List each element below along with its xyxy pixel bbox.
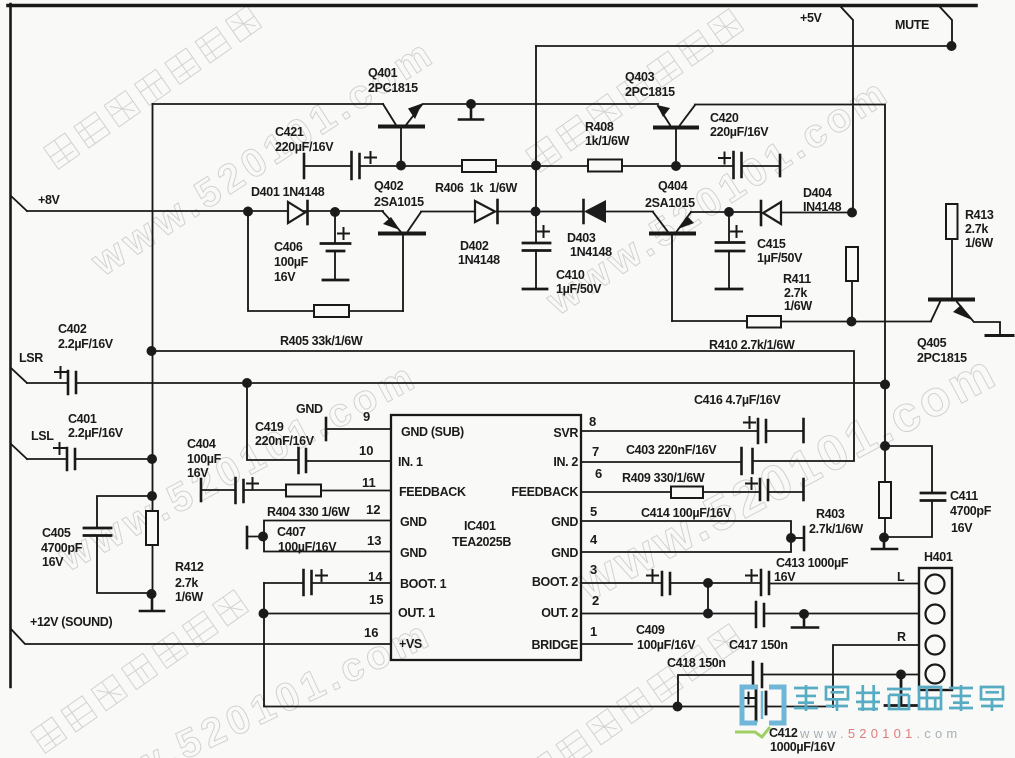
junction dot Q403 base: [671, 161, 681, 171]
svg-text:BRIDGE: BRIDGE: [531, 638, 578, 652]
capacitor C415: [728, 212, 730, 241]
junction dot +5V/D404 node: [847, 208, 857, 218]
svg-text:14: 14: [368, 569, 383, 584]
svg-text:C409: C409: [636, 623, 665, 637]
wire rail Q404 to D404: [691, 211, 761, 213]
svg-text:D403: D403: [567, 231, 596, 245]
wire +8V entry: [11, 196, 27, 211]
capacitor C411 loop: [884, 446, 932, 537]
svg-text:C419: C419: [255, 420, 284, 434]
wire pin15: [264, 613, 391, 615]
svg-text:1N4148: 1N4148: [458, 253, 500, 267]
wire pin5 pin4 loop and capacitor C414: [581, 521, 791, 552]
svg-text:16V: 16V: [42, 555, 64, 569]
junction dot LSL node: [147, 454, 157, 464]
svg-text:Q405: Q405: [917, 336, 947, 350]
junction dot C418 drop: [673, 702, 683, 712]
transistor Q403: [655, 126, 697, 130]
svg-text:GND: GND: [400, 546, 427, 560]
svg-text:8: 8: [589, 414, 596, 429]
svg-text:+8V: +8V: [38, 193, 61, 207]
transistor Q401: [380, 125, 423, 129]
svg-text:16V: 16V: [274, 270, 296, 284]
junction dot C415 node: [724, 207, 734, 217]
svg-text:D404: D404: [803, 186, 832, 200]
wire LSL-to-IN2 line y351: [151, 351, 854, 461]
capacitor C402: [27, 382, 68, 384]
wire LSR entry: [11, 368, 27, 383]
wire bottom return y706: [264, 706, 756, 708]
junction dot y383 at x885: [880, 380, 890, 390]
junction dot OUT1: [259, 609, 269, 619]
svg-text:R410 2.7k/1/6W: R410 2.7k/1/6W: [709, 338, 795, 352]
svg-text:13: 13: [367, 533, 381, 548]
svg-text:FEEDBACK: FEEDBACK: [511, 485, 578, 499]
svg-text:C416 4.7µF/16V: C416 4.7µF/16V: [694, 393, 781, 407]
junction dot C405 top: [147, 491, 157, 501]
svg-text:2PC1815: 2PC1815: [917, 351, 967, 365]
junction dot C406 node: [330, 207, 340, 217]
svg-text:1N4148: 1N4148: [570, 245, 612, 259]
svg-text:C401: C401: [68, 412, 97, 426]
wire upper rail y104 left segment: [153, 103, 384, 105]
svg-text:IC401: IC401: [464, 519, 496, 533]
site logo blue brackets: [742, 687, 784, 723]
capacitor C404: [200, 479, 203, 501]
wire pin2 capacitor C417: [581, 613, 756, 615]
wire pin8 and capacitor C416: [581, 430, 758, 432]
svg-text:2.2µF/16V: 2.2µF/16V: [68, 426, 124, 440]
svg-text:Q401: Q401: [368, 66, 398, 80]
ground speaker return: [885, 674, 918, 706]
svg-text:Q404: Q404: [658, 179, 688, 193]
junction dot speaker return: [896, 670, 906, 680]
svg-text:OUT. 2: OUT. 2: [541, 606, 578, 620]
svg-text:D402: D402: [460, 239, 489, 253]
svg-text:1/6W: 1/6W: [784, 299, 812, 313]
capacitor C408 bootstrap1: [264, 582, 303, 584]
wire +8V rail left of Q402: [27, 210, 383, 212]
diode D402: [475, 201, 495, 222]
capacitor on pin6 line: [760, 479, 768, 500]
site logo green wave: [735, 727, 770, 737]
extra faint band bottom right: [526, 624, 744, 758]
svg-text:7: 7: [592, 444, 599, 459]
capacitor C412: [756, 686, 766, 721]
svg-text:TEA2025B: TEA2025B: [452, 535, 511, 549]
junction dot upper rail x471: [466, 99, 476, 109]
svg-text:R403: R403: [816, 507, 845, 521]
svg-text:C403 220nF/16V: C403 220nF/16V: [626, 443, 717, 457]
border frame left line: [9, 4, 12, 687]
diode D403: [582, 200, 585, 223]
wire C419 branch vertical: [247, 383, 298, 460]
wire mute horizontal rail y46: [536, 45, 951, 47]
svg-text:GND: GND: [551, 515, 578, 529]
svg-text:IN. 1: IN. 1: [398, 455, 423, 469]
wire OUT1 bus vertical x264: [263, 583, 265, 706]
svg-text:H401: H401: [924, 550, 953, 564]
svg-text:4700pF: 4700pF: [41, 541, 83, 555]
junction dot mute rail: [947, 41, 957, 51]
ground symbol at upper rail x471: [459, 104, 483, 120]
wire upper rail y104 mid segment: [423, 103, 658, 105]
ground R403: [872, 537, 897, 549]
svg-text:+VS: +VS: [399, 637, 422, 651]
svg-text:1/6W: 1/6W: [175, 590, 203, 604]
LOGO: [735, 685, 1003, 741]
svg-text:R406 1k 1/6W: R406 1k 1/6W: [435, 181, 518, 195]
svg-text:1µF/50V: 1µF/50V: [556, 282, 602, 296]
ground Q405: [986, 334, 1013, 337]
svg-text:2: 2: [592, 593, 599, 608]
capacitor C406: [334, 212, 336, 242]
capacitor C418: [678, 675, 753, 706]
svg-text:+5V: +5V: [800, 11, 823, 25]
svg-text:2PC1815: 2PC1815: [368, 81, 418, 95]
svg-text:FEEDBACK: FEEDBACK: [399, 485, 466, 499]
svg-text:C421: C421: [275, 125, 304, 139]
svg-text:11: 11: [362, 475, 376, 490]
junction dot C410 node: [531, 207, 541, 217]
svg-text:C412: C412: [769, 726, 798, 740]
svg-text:MUTE: MUTE: [895, 18, 929, 32]
svg-text:2PC1815: 2PC1815: [625, 85, 675, 99]
transistor Q405: [930, 298, 973, 302]
resistor R405 and loop: [248, 212, 314, 311]
svg-text:LSL: LSL: [31, 429, 54, 443]
wire +8V rail Q402 to D402: [421, 211, 474, 213]
svg-text:LSR: LSR: [19, 351, 43, 365]
svg-text:12: 12: [366, 502, 380, 517]
wire LSL entry: [11, 444, 27, 459]
junction dot x536 y165: [531, 161, 541, 171]
wire OUT2 drop: [707, 583, 709, 613]
svg-text:6: 6: [595, 466, 602, 481]
svg-text:10: 10: [359, 443, 373, 458]
svg-text:L: L: [897, 570, 905, 584]
svg-text:OUT. 1: OUT. 1: [398, 606, 435, 620]
resistor R411: [846, 247, 858, 281]
svg-text:2.7k: 2.7k: [965, 222, 988, 236]
ground R412: [140, 594, 164, 611]
ground pin9 terminal: [325, 418, 328, 440]
wire R channel riser: [833, 645, 919, 707]
capacitor C420: [734, 152, 742, 178]
capacitor C419: [299, 448, 307, 473]
junction dot R412 bottom: [147, 589, 157, 599]
svg-text:GND: GND: [551, 546, 578, 560]
wire pin7 and capacitor C403: [581, 461, 740, 463]
svg-text:C406: C406: [274, 240, 303, 254]
wire pin3 capacitors C409 C413: [581, 582, 662, 584]
svg-text:1k/1/6W: 1k/1/6W: [585, 134, 630, 148]
svg-text:R408: R408: [585, 120, 614, 134]
junction dot C421/Q401 base: [396, 161, 406, 171]
junction dot node y351: [147, 346, 157, 356]
capacitor C421: [303, 154, 306, 178]
svg-text:C417 150n: C417 150n: [729, 638, 788, 652]
resistor R413: [946, 204, 958, 239]
svg-text:R411: R411: [783, 272, 811, 286]
svg-text:9: 9: [363, 409, 370, 424]
ground pin2 line: [792, 614, 818, 628]
resistor R412: [146, 511, 158, 545]
svg-text:C407: C407: [277, 525, 306, 539]
wire +5V drop from top border: [841, 7, 853, 212]
junction dot C407: [258, 532, 268, 542]
wire vertical x152 input bus: [152, 104, 154, 594]
svg-text:C402: C402: [58, 322, 87, 336]
svg-text:4: 4: [590, 532, 598, 547]
svg-text:R404 330 1/6W: R404 330 1/6W: [267, 505, 350, 519]
svg-text:100µF: 100µF: [274, 255, 309, 269]
svg-text:C404: C404: [187, 437, 216, 451]
junction dot C419 branch: [242, 378, 252, 388]
svg-text:BOOT. 2: BOOT. 2: [532, 575, 579, 589]
svg-text:16V: 16V: [774, 570, 796, 584]
svg-text:C413 1000µF: C413 1000µF: [776, 556, 849, 570]
connector H401: [919, 568, 952, 690]
svg-text:R409 330/1/6W: R409 330/1/6W: [622, 471, 705, 485]
border frame top line: [8, 4, 976, 8]
diode D401: [288, 202, 305, 223]
svg-text:GND (SUB): GND (SUB): [401, 425, 464, 439]
wire pin12 pin13 loop: [264, 521, 391, 552]
wire vertical x536 from y46 to D402/D403 node: [535, 46, 537, 212]
wire R410 line: [672, 320, 747, 322]
svg-text:R412: R412: [175, 560, 204, 574]
svg-text:R405 33k/1/6W: R405 33k/1/6W: [280, 334, 363, 348]
svg-text:C415: C415: [757, 237, 786, 251]
ground C406: [323, 279, 348, 282]
wire MUTE drop from top border: [940, 7, 952, 46]
svg-text:2.7k: 2.7k: [784, 286, 807, 300]
junction dots x885 column: [880, 441, 890, 451]
svg-text:1/6W: 1/6W: [965, 236, 993, 250]
resistor R408: [588, 160, 622, 172]
svg-text:16V: 16V: [951, 521, 973, 535]
svg-text:C405: C405: [42, 526, 71, 540]
svg-text:Q403: Q403: [625, 70, 655, 84]
svg-text:IN4148: IN4148: [803, 200, 842, 214]
svg-text:2SA1015: 2SA1015: [645, 196, 695, 210]
site logo teal chinese text: [794, 685, 1003, 711]
svg-text:100µF: 100µF: [187, 452, 222, 466]
svg-text:GND: GND: [400, 515, 427, 529]
transistor Q404: [651, 232, 694, 236]
svg-text:100µF/16V: 100µF/16V: [637, 638, 696, 652]
svg-text:16V: 16V: [187, 466, 209, 480]
resistor R410: [747, 316, 781, 328]
svg-text:220nF/16V: 220nF/16V: [255, 434, 315, 448]
svg-text:220µF/16V: 220µF/16V: [275, 140, 334, 154]
svg-text:2.7k: 2.7k: [175, 576, 198, 590]
junction dot pin2 ground: [799, 609, 809, 619]
svg-text:2SA1015: 2SA1015: [374, 195, 424, 209]
svg-text:C418 150n: C418 150n: [667, 656, 726, 670]
capacitor C407: [246, 527, 249, 548]
capacitor C405 loop: [97, 496, 152, 593]
svg-text:SVR: SVR: [553, 426, 578, 440]
ground C415: [716, 288, 742, 291]
svg-text:C420: C420: [710, 111, 739, 125]
wire pin1 stub: [581, 643, 632, 645]
svg-text:100µF/16V: 100µF/16V: [278, 540, 337, 554]
svg-text:IN. 2: IN. 2: [553, 455, 578, 469]
svg-text:C414 100µF/16V: C414 100µF/16V: [641, 506, 732, 520]
ground C410: [523, 288, 547, 291]
wire upper rail y104 right segment to x886 corner: [695, 105, 885, 483]
svg-text:C411: C411: [950, 489, 978, 503]
svg-text:2.7k/1/6W: 2.7k/1/6W: [809, 522, 863, 536]
svg-text:BOOT. 1: BOOT. 1: [400, 577, 447, 591]
svg-text:3: 3: [590, 562, 597, 577]
svg-text:1000µF/16V: 1000µF/16V: [770, 740, 836, 754]
resistor R403: [884, 482, 886, 518]
svg-text:C410: C410: [556, 268, 585, 282]
svg-text:2.2µF/16V: 2.2µF/16V: [58, 337, 114, 351]
svg-text:+12V (SOUND): +12V (SOUND): [30, 615, 112, 629]
svg-text:R413: R413: [965, 208, 994, 222]
diode D404: [760, 201, 763, 225]
junction dot D401 anode node: [243, 207, 253, 217]
capacitor C401: [27, 458, 67, 460]
svg-text:D401 1N4148: D401 1N4148: [251, 185, 325, 199]
svg-text:1µF/50V: 1µF/50V: [757, 251, 803, 265]
svg-text:16: 16: [364, 625, 378, 640]
wire +12V entry and pin16: [11, 629, 391, 644]
wire pin6 resistor R409: [581, 491, 671, 493]
svg-text:5: 5: [590, 504, 597, 519]
transistor Q402: [380, 232, 424, 236]
resistor R404: [286, 485, 321, 497]
svg-text:220µF/16V: 220µF/16V: [710, 125, 769, 139]
svg-text:R: R: [897, 630, 906, 644]
svg-text:4700pF: 4700pF: [950, 504, 992, 518]
resistor R406: [462, 160, 496, 172]
svg-text:15: 15: [369, 592, 383, 607]
svg-text:Q402: Q402: [374, 179, 404, 193]
svg-text:www.520101.com: www.520101.com: [799, 726, 961, 741]
capacitor C410: [535, 212, 537, 241]
junction dot R411/R410: [847, 317, 857, 327]
svg-text:GND: GND: [296, 402, 323, 416]
IC401 body: [391, 415, 581, 660]
svg-text:1: 1: [590, 624, 597, 639]
